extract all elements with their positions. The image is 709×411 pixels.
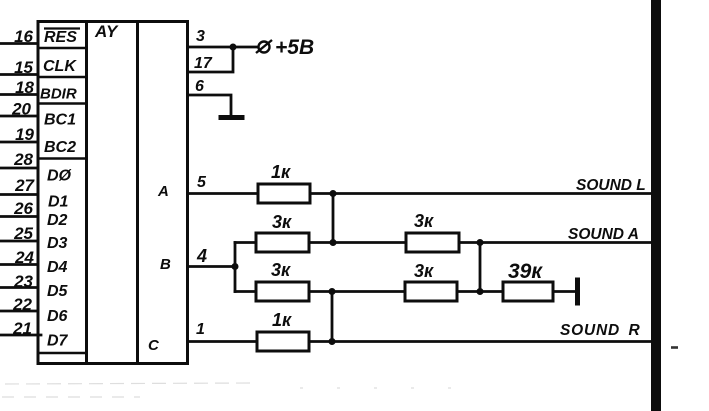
svg-text:1: 1 [196,321,205,338]
svg-text:BC2: BC2 [44,139,76,156]
wire pin21 [0,334,41,337]
wire pin3 to +5V [188,46,259,49]
svg-text:3к: 3к [414,211,434,231]
svg-text:C: C [148,337,160,354]
ground [221,115,242,120]
node SOUND R [329,338,336,345]
svg-text:BC1: BC1 [44,112,76,129]
svg-text:D3: D3 [47,235,68,252]
wire pin25 [0,240,38,243]
wire pin5 A output [188,192,259,195]
svg-text:16: 16 [14,27,33,46]
resistor R6 39k [503,282,553,301]
node SOUND A [477,239,484,246]
svg-text:B: B [160,256,171,273]
wire pin27 [0,193,38,196]
wire vertical lower mid [331,292,334,342]
resistor R3 3k [256,282,309,301]
wire R6 to terminator [553,290,576,293]
svg-text:25: 25 [13,224,33,243]
resistor R7 1k [257,332,309,351]
svg-text:20: 20 [11,100,31,119]
scan artifact speck right [671,346,678,349]
svg-text:15: 15 [14,58,33,77]
wire pin15 [0,73,38,76]
svg-text:DØ: DØ [47,168,72,185]
wire pin20 [0,115,38,118]
resistor R4 3k [406,233,459,252]
node 3k upper right [330,239,337,246]
svg-text:AY: AY [94,22,119,41]
wire pin28 [0,167,38,170]
wire pin1 C output [188,340,258,343]
wire R3 to node [309,290,405,293]
wire R5 to R6 [457,290,503,293]
svg-text:22: 22 [12,295,32,314]
pin label column outline [38,22,87,364]
svg-text:D5: D5 [47,283,69,300]
node A-mix [330,190,337,197]
svg-text:26: 26 [13,199,33,218]
wire pin24 [0,263,38,266]
svg-text:3к: 3к [414,261,434,281]
wire pin23 [0,286,38,289]
svg-text:CLK: CLK [43,58,77,75]
node lower right [477,288,484,295]
resistor R2 3k [256,233,309,252]
resistor R5 3k [405,282,457,301]
svg-text:5: 5 [197,174,207,191]
op-amp U1 : AY sound chip main body [87,22,188,364]
svg-text:D1: D1 [48,194,69,211]
svg-text:RES: RES [44,29,77,46]
wire R2 to node [309,241,406,244]
wire B to R3 [235,290,256,293]
svg-text:1к: 1к [272,310,292,330]
wire vertical 3k rows right [479,243,482,292]
wire pin17 [188,47,234,72]
wire B to R2 [235,241,256,244]
svg-text:1к: 1к [271,162,291,182]
svg-text:28: 28 [13,150,33,169]
svg-text:4: 4 [196,246,207,266]
svg-text:3к: 3к [272,212,292,232]
wire pin16 [0,42,38,45]
svg-text:27: 27 [14,176,35,195]
node B [232,263,239,270]
wire pin22 [0,310,38,313]
wire pin18 [0,93,38,96]
svg-text:D7: D7 [47,333,69,350]
svg-text:18: 18 [15,78,34,97]
internal divider line [136,22,139,364]
svg-text:SOUND A: SOUND A [568,226,639,243]
svg-text:SOUND R: SOUND R [560,322,641,339]
svg-text:+5В: +5В [275,36,314,59]
svg-text:6: 6 [195,78,204,95]
wire pin26 [0,215,38,218]
svg-text:21: 21 [12,319,32,338]
bus bar right [651,0,661,411]
svg-text:17: 17 [194,55,213,72]
svg-text:BDIR: BDIR [40,86,77,103]
node lower mid [329,288,336,295]
svg-text:39к: 39к [508,260,543,283]
svg-text:D2: D2 [47,212,68,229]
wire SOUND A line [459,241,652,244]
wire vertical A to 3k row [332,194,335,243]
svg-text:3: 3 [196,28,205,45]
wire pin4 B output [188,265,236,268]
svg-text:SOUND L: SOUND L [576,177,646,194]
svg-text:D6: D6 [47,308,68,325]
wire pin6 to ground [188,95,232,116]
svg-text:24: 24 [14,248,34,267]
power symbol circle +5V [256,40,272,53]
wire SOUND R line [309,340,652,343]
svg-text:23: 23 [13,272,33,291]
svg-text:D4: D4 [47,259,68,276]
scan artifact dashes bottom [2,383,470,397]
terminator bar [575,280,580,303]
svg-text:19: 19 [15,125,34,144]
svg-text:A: A [157,183,169,200]
node junction pins 3-17 [230,44,237,51]
svg-text:3к: 3к [271,260,291,280]
wire vertical B branch [234,243,237,292]
resistor R1 1k [258,184,310,203]
wire pin19 [0,141,38,144]
wire SOUND L line [310,192,652,195]
